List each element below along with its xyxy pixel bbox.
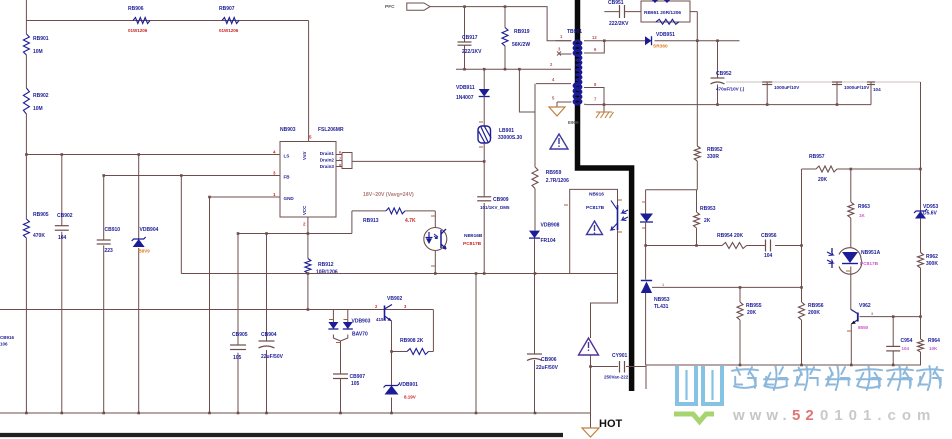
svg-text:2.7R/1206: 2.7R/1206 (546, 178, 569, 184)
inductor LB901 (478, 97, 522, 148)
IC NB903 pin labels (284, 151, 335, 215)
wire x391 down (391, 352, 393, 414)
wire bottom rail (0, 412, 591, 415)
svg-text:RB959: RB959 (546, 170, 562, 176)
warning triangle 2 (587, 221, 603, 235)
wire drain net (352, 160, 486, 163)
diode VDB901 zener (384, 382, 419, 400)
svg-text:104: 104 (902, 346, 910, 351)
svg-text:PC817B: PC817B (463, 241, 482, 247)
svg-text:22uF/50V: 22uF/50V (536, 365, 559, 371)
diode VD953 zener (914, 204, 939, 253)
resistor RB959 (532, 167, 569, 189)
wire left column top (25, 0, 27, 34)
svg-text:CB907: CB907 (350, 374, 366, 380)
svg-text:104: 104 (58, 235, 67, 241)
wire (25, 55, 27, 88)
svg-text:222/2KV: 222/2KV (609, 21, 629, 27)
snubber box RB951 (641, 0, 690, 24)
svg-text:2: 2 (303, 222, 306, 227)
svg-text:1: 1 (662, 282, 665, 287)
capacitor CB917 (458, 35, 483, 55)
resistor RB957 (809, 154, 837, 183)
svg-text:56K/2W: 56K/2W (512, 42, 530, 48)
resistor RB913 (363, 208, 416, 224)
wire 12V net (603, 39, 740, 42)
wire 4.7K net (352, 210, 435, 212)
watermark text (732, 366, 943, 390)
svg-text:CB917: CB917 (462, 35, 478, 41)
wire col x476 (475, 272, 478, 413)
wire top rail (26, 20, 308, 22)
wire RB919 col (504, 5, 507, 69)
svg-text:VD953: VD953 (923, 204, 939, 210)
diode VDB908 (529, 223, 560, 245)
svg-text:223: 223 (105, 248, 114, 254)
resistor RB907 (219, 6, 239, 33)
wire RB912 bottom (307, 274, 309, 310)
svg-text:NB903: NB903 (280, 127, 296, 133)
svg-text:470uF/10V (.): 470uF/10V (.) (716, 87, 745, 92)
wire CB917 col (463, 5, 466, 69)
svg-text:RB919: RB919 (514, 29, 530, 35)
svg-text:RB902: RB902 (33, 93, 49, 99)
resistor RB954 (717, 233, 747, 249)
wire down x433 (432, 310, 434, 352)
wire vcc net y233 (238, 233, 352, 235)
svg-text:RB905: RB905 (33, 212, 49, 218)
svg-text:VB902: VB902 (387, 296, 403, 302)
svg-text:VDB911: VDB911 (456, 85, 475, 91)
svg-text:33000S.30: 33000S.30 (498, 135, 522, 141)
wire hot gnd col (590, 356, 592, 429)
transformer TB901 label (567, 29, 582, 35)
capacitor CB951 (608, 0, 629, 27)
diode NB916-LED (640, 214, 653, 229)
svg-text:22uF/50V: 22uF/50V (261, 354, 284, 360)
svg-text:7: 7 (339, 157, 341, 161)
wire CB907 down (340, 379, 342, 414)
svg-text:RB901: RB901 (33, 36, 49, 42)
svg-text:101/1KV_DM5: 101/1KV_DM5 (480, 205, 510, 210)
svg-text:4: 4 (273, 150, 276, 155)
resistor RB902 (23, 88, 48, 114)
svg-text:NB916B: NB916B (464, 233, 483, 239)
barrier bottom fragment (0, 433, 563, 437)
svg-text:PC817B: PC817B (860, 261, 879, 267)
optocoupler NB916 phototransistor (564, 200, 628, 232)
capacitor C954 (886, 317, 912, 365)
resistor R962 (918, 253, 939, 269)
wire VDB908 down (534, 238, 536, 273)
svg-text:01W1206: 01W1206 (128, 28, 148, 33)
svg-text:VDB903: VDB903 (352, 319, 371, 325)
resistor R964 (918, 338, 941, 365)
svg-text:VDB901: VDB901 (399, 382, 418, 388)
wire opto top (431, 211, 435, 228)
svg-text:4.7K: 4.7K (405, 218, 416, 224)
svg-text:GND: GND (284, 196, 295, 201)
svg-text:8: 8 (339, 164, 341, 168)
wire col x103 (102, 174, 105, 413)
wire V962 base net (860, 315, 922, 318)
wire VB902 emitter (390, 321, 393, 353)
wire opto bottom (431, 251, 435, 274)
wire col x138 (137, 153, 140, 413)
svg-text:8550: 8550 (858, 325, 869, 330)
svg-text:R964: R964 (928, 338, 940, 344)
wire LED col (642, 190, 646, 214)
svg-text:3: 3 (273, 171, 276, 176)
svg-text:CB952: CB952 (716, 71, 732, 77)
svg-text:V962: V962 (859, 303, 871, 309)
svg-text:CB902: CB902 (57, 213, 73, 219)
wire pin5 to ground (557, 102, 572, 107)
svg-text:7: 7 (594, 97, 597, 102)
optocoupler U-NB951A (827, 248, 881, 275)
wire pin4 net (536, 83, 571, 85)
wire VCC pin (307, 217, 310, 259)
svg-text:HOT: HOT (599, 418, 623, 430)
transformer primary winding (576, 41, 582, 104)
svg-text:20K: 20K (747, 310, 757, 316)
svg-text:5: 5 (552, 96, 555, 101)
svg-text:RB954 20K: RB954 20K (717, 233, 744, 239)
wire col x266 (265, 232, 268, 413)
ground HOT (582, 418, 623, 437)
svg-text:RB953: RB953 (700, 206, 716, 212)
resistor RB906 (128, 6, 150, 33)
capacitor CB905 (230, 332, 248, 361)
wire box ext (591, 274, 618, 339)
wire LED down (644, 223, 647, 280)
wire FB net (104, 175, 280, 177)
diode VDB904 zener (132, 227, 159, 254)
isolation barrier (578, 0, 632, 391)
ground E-shield (549, 107, 579, 125)
resistor RB908 (400, 338, 429, 355)
wire RB952 col (696, 41, 698, 190)
svg-text:250Vac-222: 250Vac-222 (604, 375, 629, 380)
svg-text:VDB908: VDB908 (541, 223, 560, 229)
wire net y245 (646, 244, 802, 247)
svg-text:RB957: RB957 (809, 154, 825, 160)
svg-text:4: 4 (552, 77, 555, 82)
wire net y309 (0, 308, 433, 311)
svg-text:4153: 4153 (376, 317, 387, 322)
resistor RB919 (502, 28, 530, 49)
wire sec rail (586, 103, 871, 106)
wire cold rail (646, 364, 921, 367)
wire net y189 (646, 189, 698, 191)
diode VDB903 BAV70 (328, 310, 370, 343)
svg-text:RB912: RB912 (318, 262, 334, 268)
wire snubber net (604, 11, 641, 13)
wire LS net (25, 153, 280, 156)
diode VDB951 (645, 32, 675, 50)
svg-text:www.: www. (732, 407, 792, 424)
svg-text:106: 106 (0, 342, 8, 347)
transformer secondary winding bottom (574, 83, 580, 104)
capacitor CB916 label (0, 335, 15, 347)
wire RB959 col top (534, 84, 536, 167)
svg-text:0101.com: 0101.com (820, 407, 936, 424)
svg-text:8.19V: 8.19V (404, 395, 416, 400)
resistor RB956 (799, 287, 824, 365)
svg-text:12: 12 (592, 35, 597, 40)
capacitor CY901 (604, 353, 629, 380)
wire col x209 GND drop (208, 196, 211, 413)
IC NB953 TL431 (641, 281, 802, 366)
svg-text:104: 104 (764, 253, 773, 259)
wire opto951 out (846, 267, 851, 310)
svg-text:1: 1 (273, 192, 276, 197)
IC drain bracket (336, 151, 352, 169)
warning triangle 3 (579, 338, 599, 355)
svg-text:3: 3 (558, 47, 561, 52)
svg-text:LB901: LB901 (499, 128, 514, 134)
svg-text:VDB951: VDB951 (656, 32, 675, 38)
capacitor C-104 (867, 82, 881, 105)
svg-text:2: 2 (375, 304, 378, 309)
transistor V962 (851, 303, 874, 330)
svg-text:TL431: TL431 (654, 304, 669, 310)
diode VDB911 (456, 68, 490, 101)
svg-text:10R/1206: 10R/1206 (316, 270, 338, 276)
wire col x61 (61, 153, 64, 413)
svg-text:8: 8 (594, 82, 597, 87)
svg-text:PC817B: PC817B (586, 205, 605, 211)
svg-text:1000uF/10V: 1000uF/10V (774, 85, 800, 90)
wire CB906 col (534, 274, 536, 414)
svg-text:1N4007: 1N4007 (456, 95, 474, 101)
wire Vstr drop (308, 21, 310, 142)
svg-text:E909: E909 (568, 120, 579, 125)
svg-text:LS: LS (284, 154, 290, 159)
svg-text:RB913: RB913 (363, 218, 379, 224)
resistor RB901 (23, 34, 48, 55)
capacitor CB904 (259, 332, 284, 360)
capacitor C-1000uF a (762, 82, 800, 105)
svg-text:6: 6 (594, 47, 597, 52)
wire V962 emitter (847, 324, 851, 365)
wire RB957 net (802, 168, 922, 171)
wire net y273 (181, 272, 569, 275)
svg-text:VDB904: VDB904 (140, 227, 159, 233)
wire col x181 (180, 174, 183, 273)
svg-text:20K: 20K (818, 177, 828, 183)
svg-text:6: 6 (339, 151, 341, 155)
capacitor CB952 (711, 71, 745, 92)
svg-text:1K: 1K (859, 213, 866, 218)
wire LB901 down (483, 143, 485, 161)
svg-text:RB952: RB952 (707, 147, 723, 153)
svg-text:CB906: CB906 (541, 357, 557, 363)
wire CY901 net (589, 365, 646, 368)
svg-text:CB956: CB956 (761, 233, 777, 239)
svg-text:104: 104 (873, 87, 881, 92)
capacitor CB907 (333, 374, 365, 387)
capacitor CB906 (527, 354, 559, 371)
svg-text:222/1KV: 222/1KV (462, 49, 482, 55)
wire x801 riser (800, 169, 803, 289)
svg-text:Drain1: Drain1 (320, 151, 335, 156)
svg-text:2: 2 (550, 62, 553, 67)
svg-text:TB901: TB901 (567, 29, 582, 35)
capacitor CB902 (55, 213, 73, 241)
resistor RB953 (694, 190, 716, 246)
svg-text:C954: C954 (901, 338, 913, 344)
svg-text:NB951A: NB951A (861, 250, 881, 256)
wire PFC net (430, 7, 571, 41)
svg-text:01W1206: 01W1206 (219, 28, 239, 33)
svg-text:B8V9: B8V9 (139, 249, 151, 254)
svg-text:FR104: FR104 (541, 238, 556, 244)
ground chassis (596, 112, 614, 118)
wire RB908 net (392, 351, 434, 353)
resistor RB912 (305, 259, 338, 276)
resistor RB952 (694, 146, 722, 161)
transistor VB902 (375, 296, 407, 322)
svg-text:RB951 20R/1206: RB951 20R/1206 (644, 10, 681, 16)
svg-text:Vstr: Vstr (302, 151, 307, 160)
transformer right pins (584, 35, 604, 112)
transformer left pins (550, 41, 572, 101)
transformer secondary winding top (574, 41, 580, 56)
svg-text:Drain2: Drain2 (320, 158, 335, 163)
capacitor CB956 (761, 233, 777, 259)
capacitor C-1000uF b (832, 82, 870, 105)
resistor RB955 (737, 286, 762, 365)
svg-text:D5.6V: D5.6V (923, 211, 938, 217)
note 18V-20V (363, 192, 414, 198)
svg-text:RB955: RB955 (746, 303, 762, 309)
svg-text:RB907: RB907 (219, 6, 235, 12)
svg-text:SR360: SR360 (653, 44, 668, 50)
capacitor CB910 (97, 227, 121, 254)
watermark logo book (674, 366, 722, 422)
svg-text:470K: 470K (33, 233, 45, 239)
pin1 number (560, 34, 563, 39)
IC U-NB903 box (280, 127, 344, 217)
wire right col mid (920, 268, 922, 339)
wire BAV70 down (340, 341, 342, 374)
IC NB903 pin numbers (273, 135, 312, 227)
svg-text:1: 1 (560, 34, 563, 39)
wire RB959-VDB908 (534, 189, 536, 231)
wire pin2 net (456, 68, 571, 71)
warning triangle 1 (550, 134, 568, 149)
port PFC (385, 3, 430, 10)
svg-text:3: 3 (871, 311, 874, 316)
wire x519 drop (518, 68, 535, 112)
wire faint top (726, 81, 921, 83)
svg-text:BAV70: BAV70 (352, 332, 368, 338)
svg-text:RB908 2K: RB908 2K (400, 338, 424, 344)
svg-text:10M: 10M (33, 106, 43, 112)
svg-text:VCC: VCC (302, 205, 307, 215)
wire (25, 114, 27, 155)
svg-text:RB906: RB906 (128, 6, 144, 12)
svg-text:200K: 200K (808, 310, 820, 316)
wire GND net (210, 196, 281, 198)
svg-text:FB: FB (284, 175, 291, 180)
svg-text:RB956: RB956 (808, 303, 824, 309)
optocoupler U-NB916 box (570, 189, 618, 273)
svg-text:1000uF/10V: 1000uF/10V (844, 85, 870, 90)
wire right col top (920, 82, 922, 211)
svg-text:CY901: CY901 (612, 353, 628, 359)
svg-text:10M: 10M (33, 49, 43, 55)
resistor RB905 (23, 212, 48, 239)
svg-text:2K: 2K (704, 218, 711, 224)
svg-text:R962: R962 (926, 254, 938, 260)
wire col x238 (237, 232, 240, 413)
svg-text:CB905: CB905 (232, 332, 248, 338)
capacitor CB909 (477, 197, 510, 210)
svg-text:Drain3: Drain3 (320, 164, 335, 169)
wire up to 4.7K (351, 211, 353, 234)
svg-text:CB910: CB910 (105, 227, 121, 233)
svg-text:R963: R963 (858, 204, 870, 210)
svg-text:105: 105 (351, 381, 360, 387)
svg-text:CB909: CB909 (493, 197, 509, 203)
wire CB952 col (717, 41, 719, 105)
svg-text:5: 5 (309, 135, 312, 140)
wire snubber right (690, 12, 697, 41)
svg-text:52: 52 (792, 407, 819, 424)
svg-text:3: 3 (404, 304, 407, 309)
svg-text:10K: 10K (929, 346, 938, 351)
wire col x26 lower (25, 155, 27, 414)
svg-text:FSL206MR: FSL206MR (318, 127, 344, 133)
svg-text:CB904: CB904 (261, 332, 277, 338)
svg-text:CB951: CB951 (608, 0, 624, 6)
optocoupler U-NB916B (424, 228, 483, 251)
svg-text:300K: 300K (926, 261, 938, 267)
watermark url (732, 407, 936, 424)
svg-text:NB953: NB953 (654, 297, 670, 303)
wire cold rail stub (645, 365, 647, 389)
svg-text:105: 105 (233, 355, 242, 361)
svg-text:CB916: CB916 (0, 335, 15, 340)
svg-text:NB916: NB916 (589, 192, 604, 198)
resistor R963 (848, 169, 870, 248)
svg-text:330R: 330R (707, 154, 719, 160)
wire CB909 col (483, 161, 485, 273)
svg-text:18V~20V (Vavg=24V): 18V~20V (Vavg=24V) (363, 192, 414, 198)
svg-text:PFC: PFC (385, 4, 395, 10)
